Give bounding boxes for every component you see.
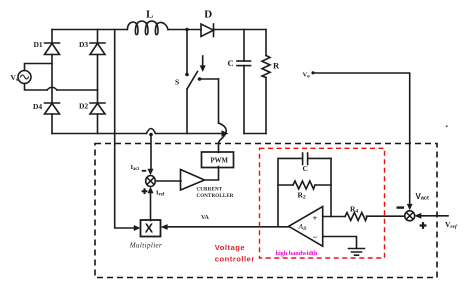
svg-text:R2: R2 [298,191,306,201]
svg-text:D1: D1 [34,40,43,49]
svg-text:S: S [175,78,179,87]
svg-text:high bandwidth: high bandwidth [276,250,318,257]
svg-text:R4: R4 [350,205,358,215]
svg-text:Iact: Iact [131,164,140,172]
svg-text:C: C [228,58,234,68]
svg-text:Iref: Iref [156,190,165,198]
svg-text:CONTROLLER: CONTROLLER [197,194,234,199]
svg-text:Vs: Vs [11,73,19,83]
svg-text:controller: controller [215,255,255,264]
svg-text:VA: VA [201,215,210,221]
svg-text:D: D [204,8,212,20]
svg-text:Vref: Vref [445,220,458,230]
svg-text:D2: D2 [79,101,88,110]
svg-text:Vo: Vo [303,72,311,80]
svg-text:D4: D4 [33,102,42,111]
svg-text:L: L [146,8,153,20]
svg-text:C: C [303,164,308,173]
svg-text:PWM: PWM [211,157,229,164]
svg-text:−: − [313,232,318,242]
svg-text:Vact: Vact [416,192,429,202]
svg-text:R: R [273,61,280,71]
svg-text:Multiplier: Multiplier [129,242,162,250]
svg-text:CURRENT: CURRENT [197,187,223,192]
svg-text:D3: D3 [79,40,88,49]
svg-text:AR: AR [298,222,308,232]
svg-text:+: + [313,213,318,223]
svg-text:Voltage: Voltage [215,243,245,252]
svg-text:X: X [145,222,154,236]
